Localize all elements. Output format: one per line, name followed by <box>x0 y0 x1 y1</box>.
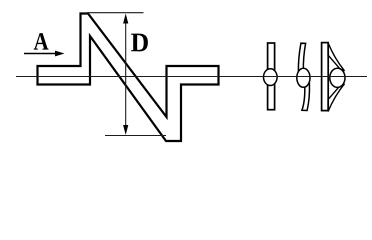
input arrow A head <box>55 51 65 57</box>
zigzag slab outline <box>38 14 219 142</box>
lens L2 sphere <box>297 68 310 87</box>
lens L2 lower curved bar <box>302 83 310 111</box>
lens L2 upper curved bar <box>298 43 305 71</box>
lens L3 lower wing <box>328 84 344 112</box>
label A <box>34 33 49 50</box>
lens L3 plano element bar <box>322 43 329 111</box>
dimension D bottom extension line <box>105 135 166 137</box>
lens L3 sphere <box>330 68 345 87</box>
lens L1 flat element bar <box>268 43 275 110</box>
label D <box>131 34 148 52</box>
lens L3 upper wing <box>328 43 344 71</box>
lens L1 sphere <box>264 69 278 86</box>
dimension D top arrowhead <box>123 14 128 24</box>
input arrow A shaft <box>24 53 57 55</box>
dimension D top extension line <box>87 12 144 14</box>
dimension D bottom arrowhead <box>123 125 128 135</box>
optical axis centerline <box>16 76 367 78</box>
dimension D vertical line <box>125 20 127 128</box>
